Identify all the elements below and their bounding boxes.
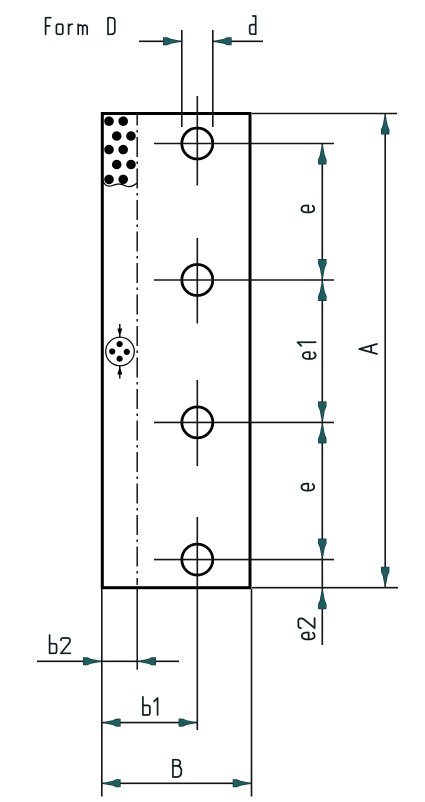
label e (upper) (301, 206, 314, 213)
label b1 (143, 697, 158, 715)
weld symbol dots (109, 341, 130, 362)
centerline extension below plate (136, 588, 138, 670)
hole 2 (182, 265, 213, 296)
hole 3 (182, 407, 213, 438)
hole 4 horizontal centerline (154, 559, 334, 561)
centerline (dash-dot inside plate) (136, 114, 138, 586)
dimension line b1 (102, 722, 198, 724)
weld symbol circle (106, 337, 135, 366)
dimension A arrow at top edge (pointing up) (381, 114, 389, 135)
dimension line b2 (37, 660, 179, 662)
hole 1 vertical centerline (196, 96, 198, 186)
dimension line B (102, 782, 252, 784)
dimension line A (384, 114, 386, 588)
knurl patch break line (103, 181, 137, 187)
label B (173, 760, 182, 777)
label d (250, 16, 256, 34)
dimension e1 arrow at hole 2 line (pointing up) (318, 280, 326, 301)
hole 1 (182, 128, 213, 159)
label Form D (46, 18, 115, 35)
label A (359, 344, 377, 354)
label e1 (298, 342, 316, 359)
dimension e lower arrow at hole 4 line (pointing down) (318, 539, 326, 560)
dimension b1 arrow left (pointing left) (102, 719, 121, 726)
left edge extension line below plate (101, 589, 103, 797)
dimension b2 arrow outside right (pointing left) (137, 658, 156, 665)
knurl patch dots (104, 116, 136, 184)
dimension e upper arrow at hole 1 line (pointing up) (318, 144, 326, 165)
dimension e2 arrow below bottom edge (pointing up) (318, 588, 326, 609)
top edge extension line (252, 113, 397, 115)
dimension B arrow left (pointing left) (102, 780, 121, 787)
dimension b1 arrow right (pointing right) (179, 719, 198, 726)
label e (lower) (301, 484, 314, 491)
label b2 (50, 635, 71, 653)
chained dimension line e/e1/e/e2 (321, 144, 323, 646)
dimension b2 arrow outside left (pointing right) (83, 658, 102, 665)
hole 4 (182, 544, 213, 575)
dimension d extension line right (212, 30, 214, 127)
dimension A arrow at bottom edge (pointing down) (381, 567, 389, 588)
dimension e1 arrow at hole 3 line (pointing down) (318, 402, 326, 423)
hole 1 horizontal centerline (154, 143, 334, 145)
hole 3 horizontal centerline (154, 421, 334, 423)
plate outline (102, 114, 250, 588)
hole 4 vertical centerline extended to b1 dimension (196, 517, 198, 730)
hole 2 horizontal centerline (154, 279, 334, 281)
weld symbol axis line top (119, 324, 121, 338)
dimension B arrow right (pointing right) (233, 780, 252, 787)
hole 2 vertical centerline (196, 238, 198, 324)
hole 3 vertical centerline (196, 380, 198, 466)
dimension d extension line left (181, 30, 183, 127)
weld symbol axis line bottom (119, 366, 121, 379)
label e2 (298, 618, 314, 639)
bottom edge extension line (252, 587, 398, 589)
dimension e upper arrow at hole 2 line (pointing down) (318, 259, 326, 280)
dimension d line left tail (139, 40, 182, 42)
right edge extension line below plate (251, 589, 253, 797)
weld symbol bottom arrow (117, 366, 122, 375)
dimension d line right tail (213, 40, 263, 42)
dimension d arrow right (pointing left) (213, 38, 232, 45)
dimension e lower arrow at hole 3 line (pointing up) (318, 422, 326, 443)
dimension d arrow left (pointing right) (163, 38, 182, 45)
weld symbol top arrow (117, 329, 122, 338)
